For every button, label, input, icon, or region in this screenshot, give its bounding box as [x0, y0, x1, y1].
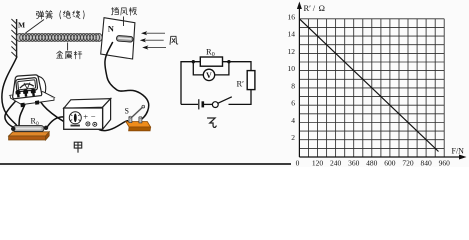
- svg-text:−: −: [91, 111, 96, 121]
- svg-text:F/N: F/N: [452, 147, 465, 156]
- svg-text:R′: R′: [237, 79, 245, 89]
- svg-text:120: 120: [312, 159, 324, 168]
- svg-text:600: 600: [384, 159, 396, 168]
- svg-text:6: 6: [291, 99, 295, 108]
- svg-text:8: 8: [291, 81, 295, 90]
- svg-text:0: 0: [212, 52, 215, 58]
- svg-text:Ω: Ω: [319, 3, 325, 13]
- svg-text:S: S: [125, 106, 129, 115]
- svg-text:16: 16: [288, 12, 296, 21]
- svg-text:12: 12: [288, 47, 296, 56]
- svg-text:0: 0: [296, 159, 300, 168]
- svg-text:0: 0: [36, 121, 39, 127]
- svg-text:480: 480: [366, 159, 378, 168]
- svg-text:2: 2: [291, 133, 295, 142]
- svg-text:840: 840: [420, 159, 432, 168]
- svg-text:360: 360: [348, 159, 360, 168]
- svg-text:14: 14: [288, 30, 296, 39]
- svg-text:M: M: [18, 20, 25, 29]
- svg-text:10: 10: [288, 64, 296, 73]
- svg-text:960: 960: [439, 159, 451, 168]
- svg-text:N: N: [108, 24, 115, 34]
- svg-text:4: 4: [291, 116, 295, 125]
- svg-text:V: V: [206, 71, 212, 80]
- svg-text:R′: R′: [304, 3, 312, 13]
- svg-text:+: +: [83, 112, 88, 122]
- svg-text:720: 720: [402, 159, 414, 168]
- svg-text:240: 240: [330, 159, 342, 168]
